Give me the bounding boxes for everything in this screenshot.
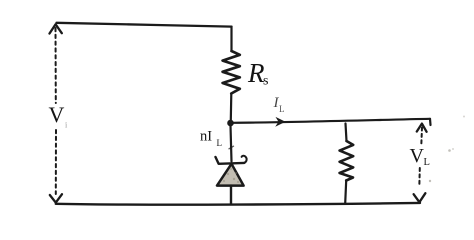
current arrow IL (275, 117, 285, 127)
label VL (410, 145, 430, 168)
resistor RL load (340, 124, 354, 204)
svg-text:V: V (410, 145, 425, 167)
wire top rail (57, 23, 232, 27)
resistor R_s (223, 27, 240, 120)
label Rs (247, 58, 268, 89)
label Vi (49, 102, 69, 130)
Vi measurement arrow (50, 24, 63, 202)
wire bottom rail (56, 203, 420, 205)
svg-text:L: L (424, 157, 430, 168)
svg-text:L: L (279, 104, 285, 114)
label IL (273, 95, 285, 114)
svg-text:i: i (65, 121, 68, 130)
wire mid rail (233, 119, 431, 125)
label nIL (200, 129, 222, 149)
svg-text:s: s (263, 74, 268, 89)
node junction dot (227, 120, 234, 127)
svg-text:nI: nI (200, 129, 212, 145)
scan specks (429, 116, 465, 183)
zener diode (216, 156, 247, 204)
VL measurement arrow (414, 124, 427, 203)
svg-text:L: L (217, 138, 223, 148)
wire zener cathode (229, 126, 234, 162)
svg-text:V: V (49, 102, 65, 127)
